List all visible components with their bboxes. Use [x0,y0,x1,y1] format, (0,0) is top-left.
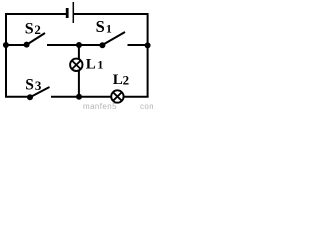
switch S3 blade [31,87,50,97]
junction dot S3 pivot [27,94,33,100]
junction dot node A center rail [76,42,82,48]
wire S3 fixed contact to L1 node to L2 [51,96,111,98]
junction dot right rail / S1 [145,42,151,48]
svg-text:2: 2 [123,73,130,88]
svg-text:1: 1 [106,22,112,36]
switch S1 blade [103,32,125,45]
battery B1 positive plate (long thin) [72,2,74,23]
wire from L2 to bottom-right corner [124,96,149,98]
svg-text:com: com [140,102,153,111]
wire S1 fixed contact to right rail [128,44,149,46]
battery B1 negative plate (short thick) [66,8,69,18]
wire top-right from battery to right rail down to bottom-right corner [74,14,148,97]
svg-text:2: 2 [34,22,41,37]
lamp L1 [70,59,82,71]
svg-text:S: S [96,17,105,36]
lamp L2 [111,90,123,102]
svg-text:S: S [25,77,34,94]
svg-text:L: L [113,72,123,88]
wire lamp L1 to bottom node [78,71,80,97]
svg-text:1: 1 [97,58,103,72]
svg-text:manfen5: manfen5 [83,102,117,111]
svg-text:S: S [25,21,34,38]
wire S2 left lead [5,44,27,46]
wire bottom from left corner to S3 pivot [5,96,30,98]
junction dot S1 pivot [99,42,105,48]
svg-text:3: 3 [35,78,42,93]
wire center rail node A to lamp L1 [78,45,80,59]
junction dot S2 pivot [24,42,30,48]
junction dot left rail / S2 [3,42,9,48]
svg-text:L: L [86,57,96,73]
switch S2 blade [27,33,45,45]
wire S2 fixed contact to node A to S1 pivot [47,44,102,46]
junction dot bottom node / L1 [76,94,82,100]
wire top-left from battery to left corner [6,14,66,97]
